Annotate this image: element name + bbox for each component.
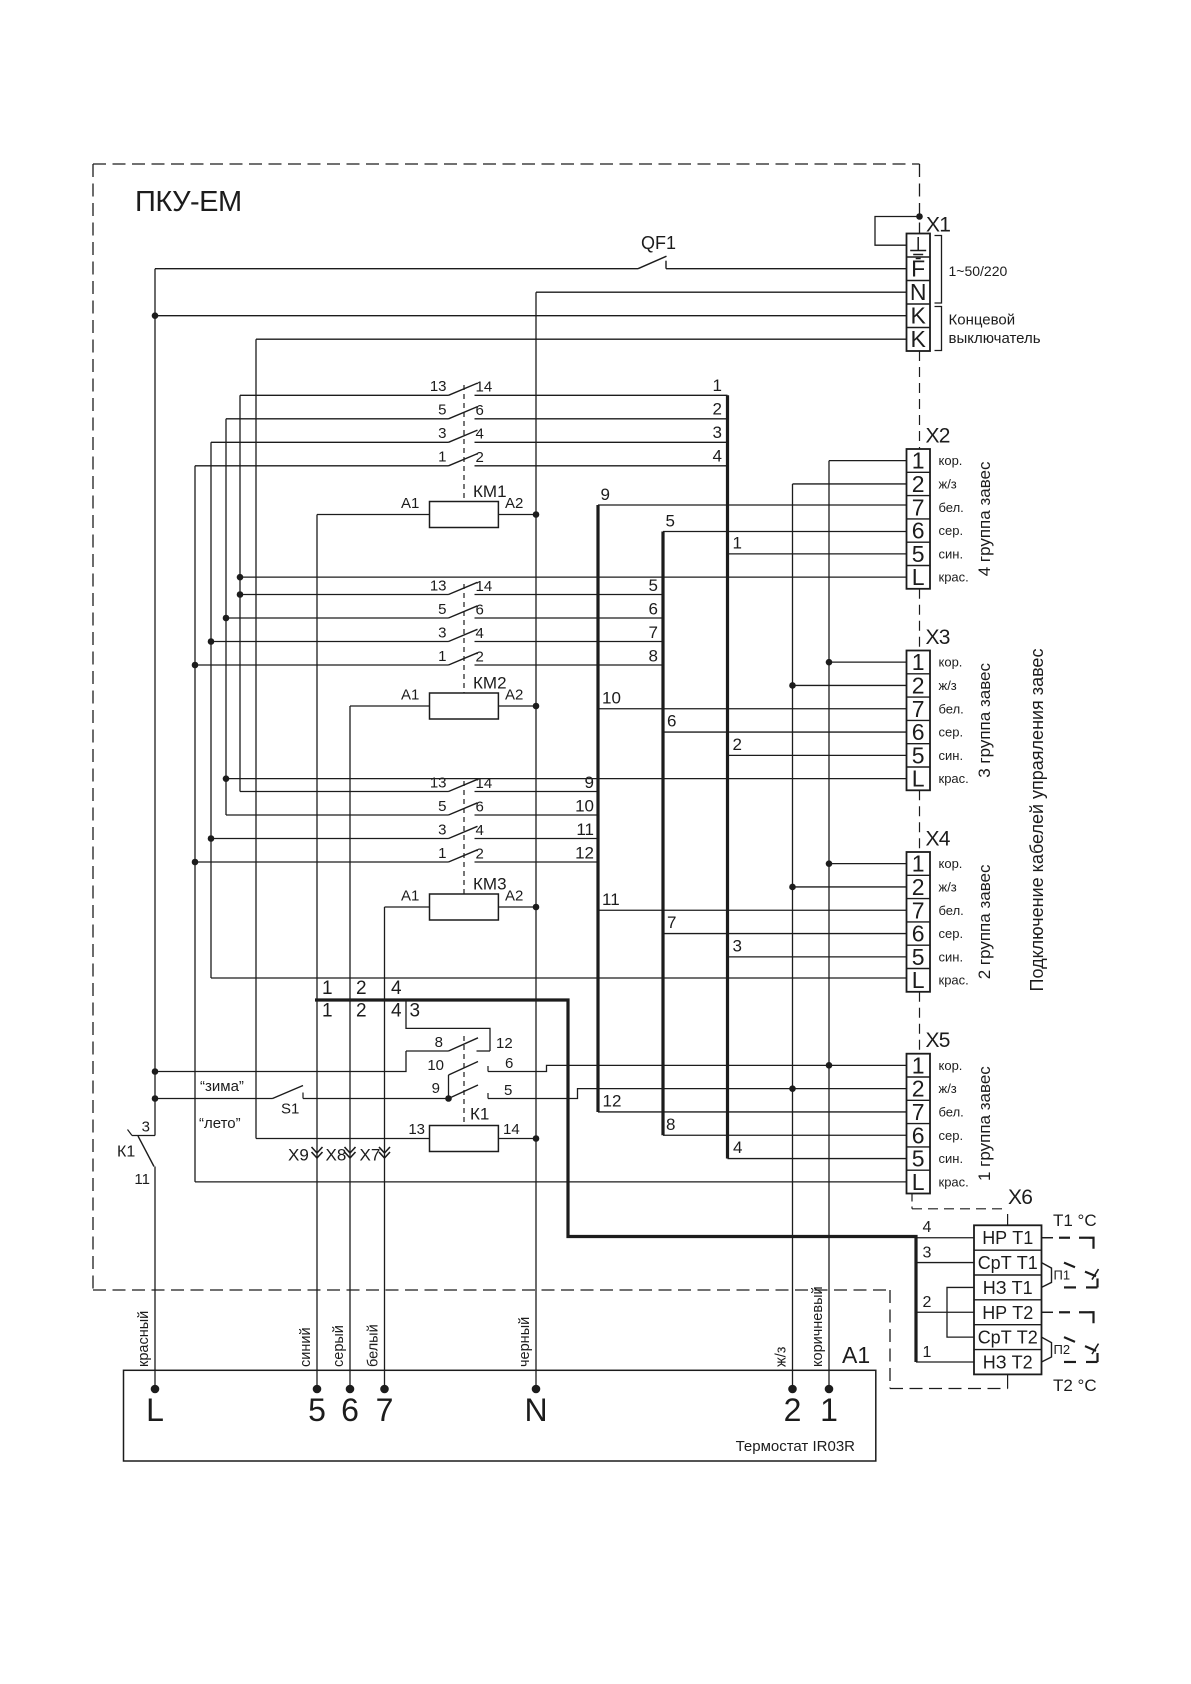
svg-text:сер.: сер. xyxy=(939,523,964,538)
svg-text:11: 11 xyxy=(576,820,594,839)
svg-text:A2: A2 xyxy=(505,687,523,704)
node S1 feed on rail L xyxy=(152,1095,159,1102)
contactor KM2 coil xyxy=(350,674,536,720)
svg-text:X5: X5 xyxy=(926,1029,950,1052)
svg-text:7: 7 xyxy=(912,494,925,520)
connector X6 terminal block xyxy=(974,1225,1042,1374)
svg-text:6: 6 xyxy=(341,1392,359,1428)
node K1-14 on N rail xyxy=(533,1135,540,1142)
svg-text:1 группа завес: 1 группа завес xyxy=(975,1066,994,1181)
svg-text:QF1: QF1 xyxy=(641,233,676,253)
svg-text:K: K xyxy=(911,326,927,352)
svg-text:1: 1 xyxy=(438,449,446,466)
svg-text:A1: A1 xyxy=(401,495,419,512)
wire rail KM2-A1 to terminal 6 x=350 xyxy=(349,706,351,1389)
wire bundle C out 8 to X5-6 xyxy=(663,1134,907,1136)
wire rail contact feed 3 x=211 xyxy=(210,442,212,978)
node KM1-A2 on N rail xyxy=(533,511,540,518)
wire bundle D out 4 to НР Т1 xyxy=(916,1237,974,1239)
svg-text:бел.: бел. xyxy=(939,500,964,515)
contact 5-6 xyxy=(226,798,598,816)
svg-text:7: 7 xyxy=(649,623,658,642)
svg-text:Термостат IR03R: Термостат IR03R xyxy=(736,1438,856,1455)
svg-text:белый: белый xyxy=(366,1324,382,1367)
circuit breaker QF1 xyxy=(638,233,676,269)
node dots on contact feed rails xyxy=(237,574,244,581)
svg-text:ж/з: ж/з xyxy=(939,476,957,491)
svg-text:син.: син. xyxy=(939,748,964,763)
svg-text:7: 7 xyxy=(912,1099,925,1125)
svg-text:Т1 °С: Т1 °С xyxy=(1053,1211,1097,1230)
svg-text:К1: К1 xyxy=(117,1144,135,1161)
svg-text:7: 7 xyxy=(376,1392,394,1428)
svg-text:A2: A2 xyxy=(505,888,523,905)
svg-text:1: 1 xyxy=(912,1052,925,1078)
svg-text:1: 1 xyxy=(438,845,446,862)
svg-text:3: 3 xyxy=(923,1245,932,1262)
svg-text:крас.: крас. xyxy=(939,771,969,786)
svg-text:ж/з: ж/з xyxy=(774,1346,790,1367)
svg-text:черный: черный xyxy=(517,1317,533,1367)
svg-text:ж/з: ж/з xyxy=(939,879,957,894)
svg-text:2: 2 xyxy=(912,874,925,900)
relay K1 contact 9-5 xyxy=(432,1080,513,1099)
cable exit X8 xyxy=(326,1146,356,1165)
svg-text:9: 9 xyxy=(601,485,610,504)
svg-text:1: 1 xyxy=(912,448,925,474)
svg-text:3 группа завес: 3 группа завес xyxy=(975,663,994,778)
X6 bottom stub xyxy=(1007,1374,1009,1388)
svg-text:3: 3 xyxy=(733,936,742,955)
wire X4-2 xyxy=(793,886,907,888)
svg-text:2: 2 xyxy=(733,735,742,754)
svg-text:2: 2 xyxy=(912,471,925,497)
svg-text:X4: X4 xyxy=(926,828,951,851)
svg-text:2: 2 xyxy=(476,449,484,466)
svg-text:2: 2 xyxy=(356,1001,367,1022)
wire bundle B out 11 to X4-7 xyxy=(598,909,907,911)
svg-text:3: 3 xyxy=(713,423,722,442)
wire X2-L red xyxy=(240,576,907,578)
wire bundle B out 12 to X5-7 xyxy=(598,1111,907,1113)
enclosure dashed border ПКУ-ЕМ xyxy=(93,164,1008,1389)
contact 3-4 xyxy=(211,624,663,642)
svg-text:X8: X8 xyxy=(326,1146,347,1165)
wire X5-L red (лето) xyxy=(195,1181,907,1183)
svg-text:бел.: бел. xyxy=(939,1104,964,1119)
svg-text:коричневый: коричневый xyxy=(810,1286,826,1367)
contact 3-4 xyxy=(211,425,728,443)
wire bundle B out 10 to X3-7 xyxy=(598,708,907,710)
svg-text:S1: S1 xyxy=(281,1101,299,1118)
connector X1 terminal block xyxy=(907,234,931,352)
connector X5 terminal block xyxy=(907,1052,931,1195)
svg-text:6: 6 xyxy=(649,600,658,619)
wire feed to contact 8 from rail L xyxy=(155,1051,406,1072)
svg-text:L: L xyxy=(912,564,925,590)
svg-text:П1: П1 xyxy=(1054,1268,1071,1283)
svg-text:N: N xyxy=(524,1392,547,1428)
svg-text:7: 7 xyxy=(667,913,676,932)
svg-text:1: 1 xyxy=(912,851,925,877)
svg-text:ж/з: ж/з xyxy=(939,1081,957,1096)
wire bundle A out 2 to X3-5 xyxy=(728,754,907,756)
svg-text:5: 5 xyxy=(504,1082,512,1099)
cable bundle D to X6 xyxy=(315,1000,916,1362)
svg-text:2: 2 xyxy=(476,648,484,665)
node: PE junction on enclosure border xyxy=(916,213,923,220)
svg-text:красный: красный xyxy=(136,1311,152,1367)
svg-text:3: 3 xyxy=(438,821,446,838)
svg-text:4: 4 xyxy=(923,1219,932,1236)
svg-text:“зима”: “зима” xyxy=(200,1078,244,1095)
svg-text:син.: син. xyxy=(939,546,964,561)
svg-text:9: 9 xyxy=(585,773,594,792)
wire conductor 3 drop from bundle D to K1 pin 12 xyxy=(406,1000,490,1051)
svg-text:2: 2 xyxy=(356,978,367,999)
wire rail yellow-green x=792 xyxy=(792,484,794,1389)
wire rail contact feed 13 x=240 xyxy=(239,395,241,791)
node KM2-A2 on N rail xyxy=(533,703,540,710)
cable bundle C (grey wires pin6) xyxy=(661,532,664,1136)
svg-text:6: 6 xyxy=(476,402,484,419)
wire rail K2 x=256 xyxy=(255,339,257,1138)
terminal 2 of thermostat xyxy=(784,1385,802,1428)
svg-text:кор.: кор. xyxy=(939,856,963,871)
wire contact 5 to X5-2 xyxy=(488,1089,907,1099)
wire link НЗ Т1 to СрТ Т2 xyxy=(947,1287,974,1337)
svg-text:1: 1 xyxy=(438,648,446,665)
svg-text:крас.: крас. xyxy=(939,1174,969,1189)
svg-text:L: L xyxy=(146,1392,164,1428)
terminal L of thermostat xyxy=(146,1385,164,1428)
thermostat sensor contact П1 xyxy=(1042,1238,1099,1288)
ground symbol in X1 pin 1 xyxy=(910,237,926,259)
wire colour labels X2 xyxy=(939,453,969,585)
wire X4-1 xyxy=(829,863,907,865)
wire colour labels X3 xyxy=(939,655,969,787)
svg-text:син.: син. xyxy=(939,1151,964,1166)
bracket 1~50/220 xyxy=(935,236,1008,304)
svg-text:1: 1 xyxy=(733,533,742,552)
svg-text:6: 6 xyxy=(476,798,484,815)
thermostat A1 box xyxy=(124,1370,876,1461)
node tap yellow-green wire xyxy=(789,1085,796,1092)
svg-text:14: 14 xyxy=(476,379,493,396)
dashed link X5 to X6 xyxy=(912,1194,1008,1226)
svg-text:СрТ Т2: СрТ Т2 xyxy=(978,1328,1038,1348)
svg-text:11: 11 xyxy=(602,890,620,909)
svg-text:2: 2 xyxy=(784,1392,802,1428)
terminal 7 of thermostat xyxy=(376,1385,394,1428)
svg-text:КМ2: КМ2 xyxy=(473,674,507,693)
svg-text:2: 2 xyxy=(476,845,484,862)
wire bundle A out 3 to X4-5 xyxy=(728,956,907,958)
cable bundle A (blue wires pin5) xyxy=(726,395,729,1158)
svg-text:5: 5 xyxy=(308,1392,326,1428)
svg-text:К1: К1 xyxy=(470,1105,489,1124)
svg-text:Т2 °С: Т2 °С xyxy=(1053,1376,1097,1395)
wire bundle C out 5 to X2-6 xyxy=(663,531,907,533)
svg-text:N: N xyxy=(910,279,927,305)
svg-text:4: 4 xyxy=(391,978,402,999)
svg-text:6: 6 xyxy=(912,921,925,947)
svg-text:8: 8 xyxy=(666,1115,675,1134)
svg-text:14: 14 xyxy=(476,578,493,595)
svg-text:4: 4 xyxy=(733,1138,742,1157)
wire bundle D out 1 to НЗ Т2 xyxy=(916,1361,974,1363)
switch S1 зима/лето xyxy=(155,1086,449,1118)
svg-text:5: 5 xyxy=(649,576,658,595)
contact 13-14 xyxy=(240,378,728,396)
svg-text:выключатель: выключатель xyxy=(949,330,1041,347)
svg-text:бел.: бел. xyxy=(939,701,964,716)
svg-text:L: L xyxy=(912,1169,925,1195)
cable exit X7 xyxy=(360,1146,391,1165)
terminal 6 of thermostat xyxy=(341,1385,359,1428)
svg-text:4 группа завес: 4 группа завес xyxy=(975,461,994,576)
cable exit X9 xyxy=(288,1146,323,1165)
svg-text:10: 10 xyxy=(602,688,621,707)
svg-text:X3: X3 xyxy=(926,626,950,649)
svg-text:5: 5 xyxy=(912,742,925,768)
svg-text:A1: A1 xyxy=(842,1342,870,1368)
svg-text:5: 5 xyxy=(438,402,446,419)
svg-text:4: 4 xyxy=(476,822,484,839)
svg-text:НР Т1: НР Т1 xyxy=(982,1228,1033,1248)
svg-text:6: 6 xyxy=(505,1055,513,1072)
svg-text:синий: синий xyxy=(298,1327,314,1367)
svg-text:КМ1: КМ1 xyxy=(473,482,507,501)
connector X4 terminal block xyxy=(907,851,931,994)
svg-text:2 группа завес: 2 группа завес xyxy=(975,864,994,979)
svg-text:K: K xyxy=(911,302,927,328)
svg-text:3: 3 xyxy=(410,1001,421,1022)
wire K2: x256 rail to X1-K xyxy=(256,338,907,340)
svg-text:6: 6 xyxy=(912,719,925,745)
relay K1 coil xyxy=(256,1105,536,1152)
relay K1 contact 8-12 xyxy=(406,1034,513,1052)
svg-text:сер.: сер. xyxy=(939,1128,964,1143)
svg-text:кор.: кор. xyxy=(939,655,963,670)
contact 1-2 xyxy=(195,449,728,467)
relay K1 mechanical link dashed xyxy=(463,1036,465,1126)
node KM3-A2 on N rail xyxy=(533,904,540,911)
svg-text:14: 14 xyxy=(476,775,493,792)
relay K1 contact 10-6 xyxy=(427,1055,513,1099)
svg-text:14: 14 xyxy=(503,1121,520,1138)
svg-text:крас.: крас. xyxy=(939,570,969,585)
wire N: X1-N to N rail corner xyxy=(536,291,907,293)
svg-text:L: L xyxy=(912,766,925,792)
svg-text:4: 4 xyxy=(713,446,722,465)
svg-text:A2: A2 xyxy=(505,495,523,512)
contact 3-4 xyxy=(211,821,598,839)
svg-text:5: 5 xyxy=(666,512,675,531)
svg-text:10: 10 xyxy=(427,1057,444,1074)
wire X4-L red xyxy=(211,977,907,979)
svg-text:X2: X2 xyxy=(926,425,950,448)
svg-text:син.: син. xyxy=(939,949,964,964)
wire rail contact feed 1 x=195 xyxy=(194,466,196,1182)
svg-text:5: 5 xyxy=(912,541,925,567)
mechanical link dashed xyxy=(463,781,465,894)
wire rail brown x=829 xyxy=(828,461,830,1389)
svg-text:серый: серый xyxy=(331,1325,347,1367)
svg-text:8: 8 xyxy=(649,647,658,666)
node taps on brown rail xyxy=(826,659,833,666)
svg-text:4: 4 xyxy=(476,426,484,443)
svg-text:5: 5 xyxy=(438,798,446,815)
bracket Концевой выключатель xyxy=(935,307,1041,351)
svg-text:13: 13 xyxy=(408,1121,425,1138)
connector X3 terminal block xyxy=(907,649,931,792)
connector X2 terminal block xyxy=(907,448,931,591)
svg-text:6: 6 xyxy=(476,601,484,618)
svg-text:НР Т2: НР Т2 xyxy=(982,1303,1033,1323)
wire PE: X1 pin1 to enclosure xyxy=(875,217,920,246)
svg-text:бел.: бел. xyxy=(939,903,964,918)
svg-text:X7: X7 xyxy=(360,1146,381,1165)
contactor KM1 coil xyxy=(317,482,536,528)
wire bundle A out 4 to X5-5 xyxy=(728,1158,907,1160)
contact 1-2 xyxy=(195,648,663,666)
wire rail KM1-A1 to terminal 5 x=317 xyxy=(316,515,318,1390)
svg-text:6: 6 xyxy=(912,518,925,544)
svg-text:5: 5 xyxy=(438,601,446,618)
node feed 8 on rail L xyxy=(152,1068,159,1075)
svg-text:2: 2 xyxy=(923,1294,932,1311)
cable bundle B (white wires pin7) xyxy=(596,505,599,1112)
svg-text:4: 4 xyxy=(391,1001,402,1022)
svg-text:7: 7 xyxy=(912,696,925,722)
wire rail L (red) x=155 xyxy=(154,269,156,1136)
svg-text:11: 11 xyxy=(134,1171,150,1188)
terminal 5 of thermostat xyxy=(308,1385,326,1428)
mechanical link dashed xyxy=(463,385,465,502)
svg-text:1: 1 xyxy=(912,649,925,675)
svg-text:12: 12 xyxy=(603,1091,622,1110)
wire bundle C out 6 to X3-6 xyxy=(663,731,907,733)
svg-text:3: 3 xyxy=(438,624,446,641)
svg-text:12: 12 xyxy=(575,844,594,863)
relay K1 NC contact 3-11 xyxy=(117,1119,155,1189)
wire X2-1 xyxy=(829,460,907,462)
contact 5-6 xyxy=(226,402,728,420)
svg-text:кор.: кор. xyxy=(939,1058,963,1073)
svg-text:крас.: крас. xyxy=(939,973,969,988)
svg-text:13: 13 xyxy=(430,378,447,395)
wire rail KM3-A1 to terminal 7 x=384 xyxy=(384,907,386,1389)
svg-text:2: 2 xyxy=(912,1076,925,1102)
svg-text:ж/з: ж/з xyxy=(939,678,957,693)
svg-text:6: 6 xyxy=(912,1122,925,1148)
wire rail contact feed 5 x=226 xyxy=(225,419,227,815)
svg-text:1: 1 xyxy=(820,1392,838,1428)
svg-text:сер.: сер. xyxy=(939,725,964,740)
contact 13-14 xyxy=(240,577,663,595)
node contact 9 common xyxy=(445,1095,452,1102)
svg-text:СрТ Т1: СрТ Т1 xyxy=(978,1253,1038,1273)
svg-text:10: 10 xyxy=(575,797,594,816)
svg-text:КМ3: КМ3 xyxy=(473,875,507,894)
svg-text:3: 3 xyxy=(142,1119,150,1136)
svg-text:13: 13 xyxy=(430,577,447,594)
wire bundle D out 3 to СрТ Т1 xyxy=(916,1262,974,1264)
mechanical link dashed xyxy=(463,584,465,693)
contact 1-2 xyxy=(195,845,598,863)
svg-text:1: 1 xyxy=(713,376,722,395)
svg-text:1: 1 xyxy=(923,1344,932,1361)
wire bundle C out 7 to X4-6 xyxy=(663,933,907,935)
svg-text:X9: X9 xyxy=(288,1146,309,1165)
node K on left rail xyxy=(152,312,159,319)
contact 13-14 xyxy=(240,774,598,792)
svg-text:3: 3 xyxy=(438,425,446,442)
svg-text:Концевой: Концевой xyxy=(949,312,1016,329)
svg-text:13: 13 xyxy=(430,774,447,791)
svg-text:X6: X6 xyxy=(1008,1186,1032,1209)
node taps on yellow-green rail xyxy=(789,682,796,689)
wire K: left rail to X1-K xyxy=(155,315,907,317)
terminal 1 of thermostat xyxy=(820,1385,838,1428)
svg-text:НЗ Т1: НЗ Т1 xyxy=(983,1278,1033,1298)
svg-text:1: 1 xyxy=(322,1001,333,1022)
svg-text:A1: A1 xyxy=(401,888,419,905)
wire bundle D out 2 to НР Т2 xyxy=(916,1311,974,1313)
svg-text:2: 2 xyxy=(912,672,925,698)
wire bundle B out 9 to X2-7 xyxy=(598,504,907,506)
wire X3-2 xyxy=(793,684,907,686)
terminal N of thermostat xyxy=(524,1385,547,1428)
svg-text:1~50/220: 1~50/220 xyxy=(949,263,1008,279)
svg-text:8: 8 xyxy=(435,1034,443,1051)
thermostat sensor contact П2 xyxy=(1042,1312,1099,1362)
wire bundle A out 1 to X2-5 xyxy=(728,553,907,555)
svg-text:9: 9 xyxy=(432,1080,440,1097)
contact 5-6 xyxy=(226,601,663,619)
dashed connector axis segments xyxy=(919,351,921,1054)
svg-text:НЗ Т2: НЗ Т2 xyxy=(983,1352,1033,1372)
svg-text:2: 2 xyxy=(713,399,722,418)
svg-text:6: 6 xyxy=(667,712,676,731)
svg-text:4: 4 xyxy=(476,625,484,642)
svg-text:12: 12 xyxy=(496,1035,513,1052)
svg-text:L: L xyxy=(912,967,925,993)
contactor KM3 coil xyxy=(385,875,537,921)
svg-text:5: 5 xyxy=(912,1146,925,1172)
svg-text:кор.: кор. xyxy=(939,453,963,468)
svg-text:1: 1 xyxy=(322,978,333,999)
wire colour labels X5 xyxy=(939,1058,969,1190)
node tap brown wire xyxy=(826,1062,833,1069)
wire F: X1-F through QF1 to left rail xyxy=(666,268,907,270)
svg-text:ПКУ-ЕМ: ПКУ-ЕМ xyxy=(135,186,242,218)
svg-text:Подключение кабелей упраяления: Подключение кабелей упраяления завес xyxy=(1027,649,1047,992)
svg-text:П2: П2 xyxy=(1054,1342,1071,1357)
svg-text:сер.: сер. xyxy=(939,926,964,941)
wire rail N x=536 xyxy=(535,292,537,1389)
svg-text:A1: A1 xyxy=(401,687,419,704)
wire X3-L red xyxy=(226,778,907,780)
svg-text:7: 7 xyxy=(912,897,925,923)
svg-text:5: 5 xyxy=(912,944,925,970)
wire colour labels X4 xyxy=(939,856,969,988)
wire contact 6 to X5-1 xyxy=(488,1065,907,1071)
svg-text:“лето”: “лето” xyxy=(199,1115,241,1132)
wire X3-1 xyxy=(829,661,907,663)
wire X2-2 xyxy=(793,483,907,485)
